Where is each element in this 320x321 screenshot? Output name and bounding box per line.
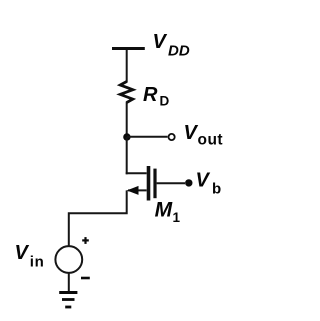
wire resistor to output node <box>126 102 128 138</box>
svg-text:V: V <box>153 31 168 53</box>
wire Vin to ground <box>68 273 70 292</box>
VDD supply bar <box>112 47 145 50</box>
resistor RD <box>120 82 133 103</box>
wire gate to Vb <box>157 182 185 184</box>
svg-text:1: 1 <box>173 210 181 225</box>
V_out label <box>184 122 224 148</box>
svg-text:V: V <box>15 242 30 264</box>
svg-text:D: D <box>160 93 170 108</box>
plus polarity mark <box>82 237 89 244</box>
R_D value label <box>143 84 170 109</box>
M_1 label <box>155 199 181 225</box>
wire source to Vin source (down, left, down) <box>69 190 127 245</box>
transistor M1 (NMOS, gate on right) <box>126 166 155 201</box>
wire VDD to resistor <box>126 50 128 83</box>
svg-text:b: b <box>212 180 221 197</box>
wire node to transistor drain <box>126 137 128 174</box>
V_in label <box>15 242 45 270</box>
node Vb terminal dot <box>185 179 192 186</box>
svg-text:in: in <box>30 254 45 271</box>
Vout open terminal circle <box>169 134 175 140</box>
svg-text:out: out <box>198 131 224 148</box>
svg-text:DD: DD <box>168 43 190 60</box>
ground <box>59 293 77 308</box>
wire node to Vout terminal <box>127 136 168 138</box>
svg-text:R: R <box>143 84 158 106</box>
svg-text:M: M <box>155 199 173 222</box>
minus polarity mark <box>81 277 90 280</box>
svg-text:V: V <box>184 122 199 144</box>
node: drain/output junction dot <box>123 133 130 140</box>
V_DD label <box>153 31 190 59</box>
svg-text:V: V <box>196 169 211 191</box>
V_b label <box>196 169 222 197</box>
voltage source Vin circle <box>55 246 82 273</box>
